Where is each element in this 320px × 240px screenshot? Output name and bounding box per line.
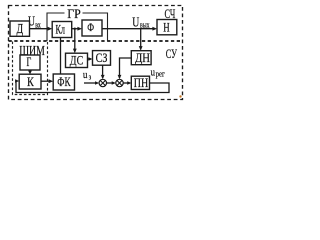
node on wire Кл-Ф [74,28,76,30]
block Ф [82,20,102,36]
svg-text:СУ: СУ [166,47,177,61]
wire drop from U_вых junction to ДН [140,29,142,50]
svg-text:вых: вых [140,20,150,29]
svg-text:ДС: ДС [70,53,83,68]
svg-text:рег: рег [156,70,166,79]
block Кл [52,22,71,38]
block Г [20,55,40,70]
wire drop from Кл bottom to ФК top [60,38,62,75]
wire ДН left and down to summer 2 [120,58,132,78]
wire u_з to summer 1 [84,82,98,84]
box ГР (solid sub-enclosure) [47,13,108,41]
wire Г to К [29,70,31,73]
block ПН [131,76,149,89]
svg-text:Ф: Ф [87,22,94,34]
dotted divider between СЧ and СУ sections [9,40,183,42]
stray orange speck [179,95,181,97]
wire Д to Кл [30,28,51,30]
svg-text:СЗ: СЗ [96,50,108,65]
svg-text:Кл: Кл [56,22,66,37]
svg-text:з: з [89,72,92,81]
svg-text:Н: Н [163,20,169,35]
block Н [157,20,177,35]
svg-text:Д: Д [17,22,24,37]
wire ДС to СЗ [88,58,92,60]
svg-text:U: U [132,16,139,31]
block К [19,74,41,89]
block ДС [66,53,88,67]
outer dashed enclosure [9,6,183,100]
wire Кл to Ф [72,28,81,30]
wire drop from node to ДС [74,29,76,52]
svg-text:Г: Г [27,54,32,69]
svg-text:ГР: ГР [67,6,81,21]
svg-text:ПН: ПН [134,75,148,90]
label ГР [65,8,83,19]
svg-text:ДН: ДН [135,50,150,65]
block Д [10,21,30,36]
block ДН [131,51,151,65]
svg-text:ФК: ФК [57,74,70,89]
svg-text:вх: вх [35,20,41,29]
wire summer2 to ПН [123,82,130,84]
block ФК [53,74,74,90]
svg-text:u: u [83,69,88,81]
feedback wire: ПН right, down, along bottom, up into К [16,81,169,93]
box ШИМ (dashed sub-enclosure) [13,42,48,95]
summer 2 (circle with X) [116,79,123,86]
wire summer1 to summer2 [107,82,115,84]
wire Ф to Н [102,28,156,30]
summer 1 (circle with X) [99,79,106,86]
wire СЗ down to summer 1 [102,65,104,78]
block СЗ [93,51,111,66]
wire К to ФК [41,80,52,82]
svg-text:К: К [27,74,34,89]
